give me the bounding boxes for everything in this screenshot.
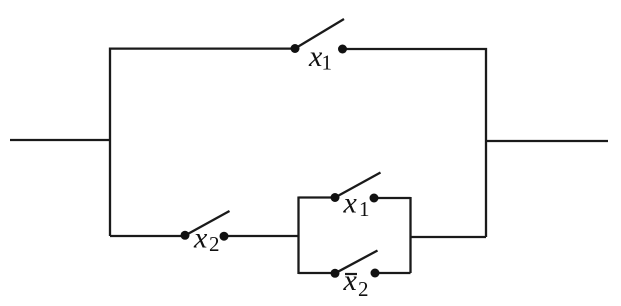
svg-text:2: 2 bbox=[358, 277, 369, 301]
svg-text:2: 2 bbox=[209, 232, 220, 256]
svg-text:1: 1 bbox=[322, 51, 333, 75]
svg-text:x: x bbox=[193, 222, 208, 255]
svg-text:x: x bbox=[343, 264, 358, 297]
svg-text:x: x bbox=[343, 187, 358, 220]
svg-text:1: 1 bbox=[359, 197, 370, 221]
